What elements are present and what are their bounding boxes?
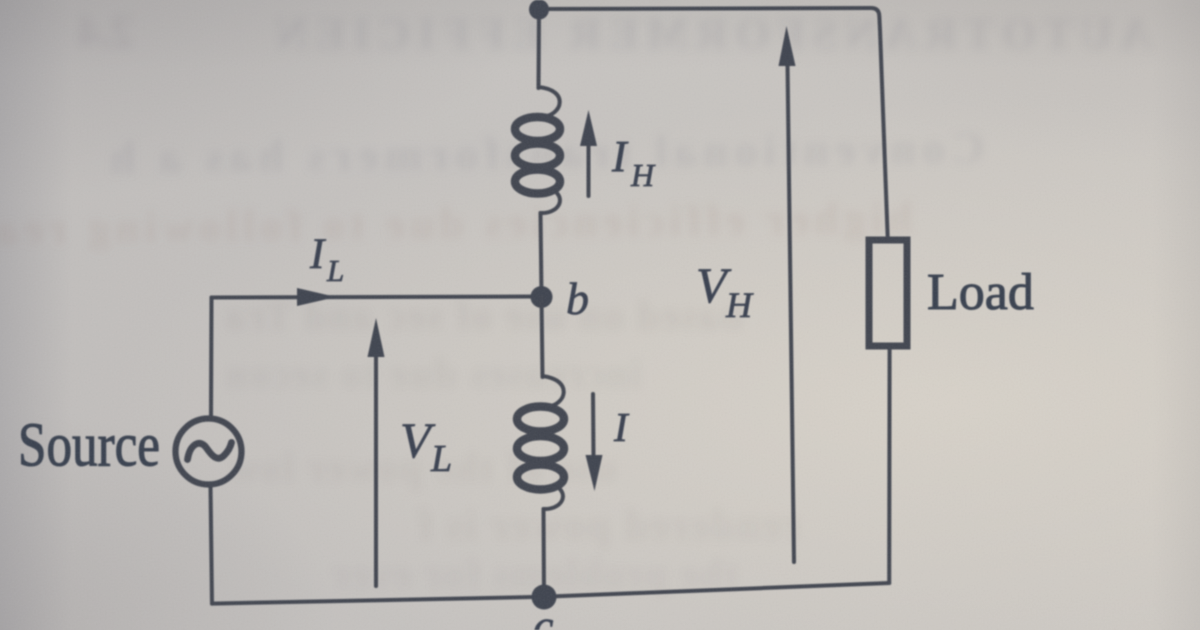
node b junction dot xyxy=(531,286,553,308)
inductor lower coil turn 3 xyxy=(517,465,564,490)
arrowhead of I_L on wire xyxy=(297,288,336,306)
bleed-through line "Conventional transformers has a h" xyxy=(104,121,985,185)
arrowhead of I_H xyxy=(580,110,597,146)
wire: from lower coil to node c xyxy=(542,509,547,597)
inductor upper coil exit arc xyxy=(541,190,560,213)
wire: bottom horizontal from right corner through node c to left corner xyxy=(212,583,889,604)
bleed-through line "rendered power is f" xyxy=(416,502,800,550)
inductor upper coil turn 3 xyxy=(515,170,560,194)
bleed-through line "use of the power low" xyxy=(228,444,616,491)
wire: horizontal I_L wire from left corner to node b xyxy=(212,297,542,298)
source sine symbol xyxy=(188,443,232,460)
bleed-through line "higher efficiencies due to following rea" xyxy=(0,192,913,254)
bleed-through heading "2.4" xyxy=(78,6,133,57)
bleed-through line "based on use of sec and Tra" xyxy=(224,292,743,339)
arrowhead of V_H xyxy=(779,26,796,66)
bleed-through line "the problems for ever" xyxy=(330,550,738,597)
inductor upper coil turn 2 xyxy=(515,144,560,168)
arrowhead of I (down) xyxy=(586,455,603,491)
arrow I_H (up) line xyxy=(587,142,591,196)
node c junction dot xyxy=(532,585,557,610)
wire: middle vertical from node a down to upper coil xyxy=(537,9,542,88)
node a (top junction dot) xyxy=(529,0,549,20)
bleed-through heading "AUTOTRANSFORMER EFFICIEN" xyxy=(268,8,1152,59)
wire: from node b down to lower coil xyxy=(542,297,543,377)
bleed-through line "increases due to secon" xyxy=(224,350,642,397)
arrow V_H (up) line xyxy=(788,64,795,562)
arrow I (down) line xyxy=(591,394,596,456)
wire: from upper coil to node b xyxy=(541,213,542,296)
wire: left vertical from I_L wire corner down to source top xyxy=(209,298,214,419)
arrow V_L (up) line xyxy=(374,352,378,586)
arrowhead of V_L xyxy=(368,318,385,357)
inductor lower coil entry arc xyxy=(543,376,564,407)
inductor lower coil exit arc xyxy=(544,486,563,509)
wire: right vertical from Load bottom to bottom-right corner xyxy=(887,349,891,583)
inductor lower coil turn 1 xyxy=(517,407,564,432)
wire: left vertical from source bottom to bottom-left corner xyxy=(211,485,213,604)
load resistor rectangle xyxy=(869,240,907,346)
inductor upper coil turn 1 xyxy=(515,117,560,141)
wire: right vertical from top corner down to Load top xyxy=(880,30,888,238)
inductor lower coil turn 2 xyxy=(517,436,564,461)
inductor upper coil entry arc xyxy=(539,87,560,117)
wire: top horizontal from node a to top-right corner xyxy=(539,8,880,30)
source AC circle xyxy=(176,419,242,485)
